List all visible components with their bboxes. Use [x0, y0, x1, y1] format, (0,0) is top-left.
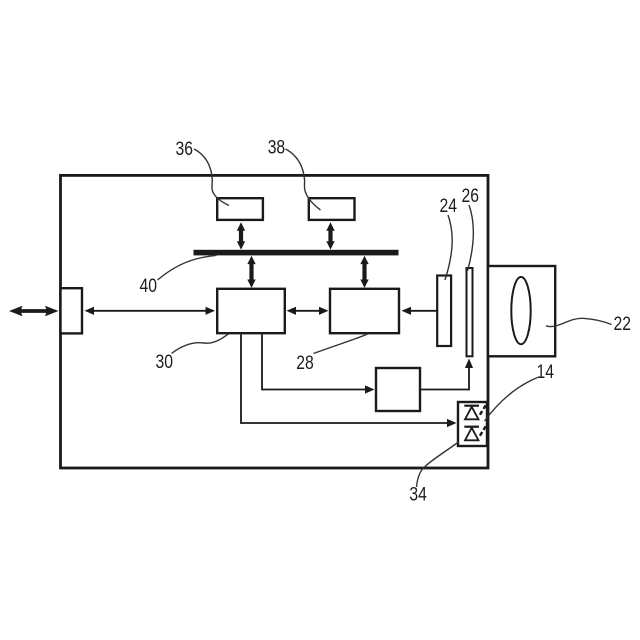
shutter box 26 — [467, 268, 473, 356]
svg-text:30: 30 — [156, 351, 174, 373]
leader 40 — [158, 255, 217, 280]
wire driver box to shutter 26 — [421, 359, 474, 390]
lens ellipse — [511, 277, 530, 344]
leader 28 — [314, 334, 369, 354]
svg-text:34: 34 — [409, 484, 427, 506]
left interface box on border — [61, 288, 83, 333]
LED box 14 — [458, 402, 487, 446]
svg-text:38: 38 — [268, 137, 286, 159]
small box (driver) — [376, 368, 420, 411]
svg-text:22: 22 — [614, 313, 632, 335]
box 36 (memory) — [217, 198, 263, 220]
vertical double arrow bus to box 28 — [360, 256, 368, 288]
wire box 30 to LED box 14 — [241, 335, 457, 428]
leader 26 — [468, 205, 474, 271]
bus bar 40 — [194, 250, 399, 256]
svg-text:28: 28 — [296, 352, 314, 374]
box 38 (memory) — [309, 198, 355, 220]
arrow box 24 to box 28 — [402, 307, 438, 315]
lens unit box 22 — [488, 266, 555, 356]
double arrow left box to box 30 — [85, 307, 216, 315]
vertical double arrow box 38 to bus — [326, 222, 334, 249]
svg-text:36: 36 — [176, 138, 194, 160]
box 28 (controller) — [330, 289, 399, 333]
leader 22 — [546, 318, 612, 326]
wire box 30 to driver box — [262, 335, 375, 394]
sensor box 24 — [437, 276, 451, 347]
svg-text:14: 14 — [537, 361, 555, 383]
double arrow box 30 to box 28 — [287, 307, 329, 315]
leader 24 — [445, 215, 452, 280]
LED symbol 2 — [464, 426, 486, 440]
svg-text:40: 40 — [140, 275, 158, 297]
leader 38 — [286, 149, 321, 210]
leader 36 — [194, 149, 229, 206]
outer enclosure box (camera housing) — [61, 175, 489, 468]
svg-text:24: 24 — [440, 195, 458, 217]
leader 30 — [172, 334, 229, 354]
leader 14 — [485, 378, 538, 422]
LED symbol 1 — [464, 405, 486, 419]
leader 34 — [417, 442, 459, 487]
svg-text:26: 26 — [462, 185, 480, 207]
vertical double arrow box 36 to bus — [237, 222, 245, 249]
box 30 (processor) — [217, 289, 285, 333]
vertical double arrow bus to box 30 — [247, 256, 255, 288]
thick external double arrow — [9, 306, 59, 316]
